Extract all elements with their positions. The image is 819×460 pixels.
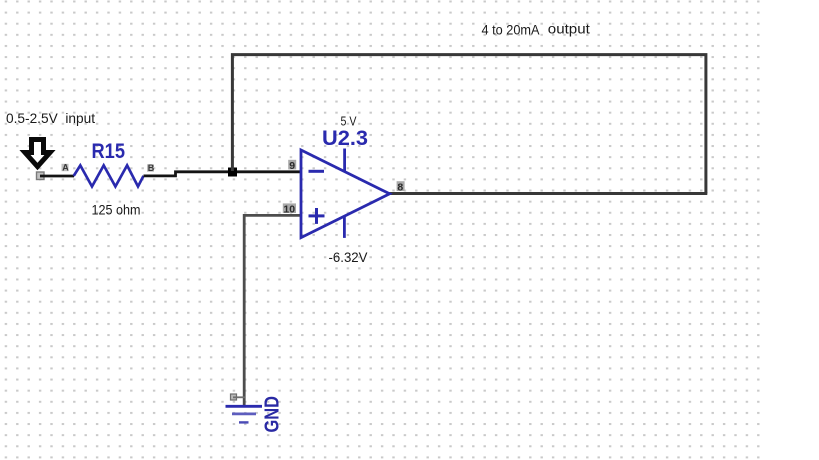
resistor R15 [74,165,144,186]
op-amp negative supply stub [343,216,346,238]
wire: op-amp output to right [390,192,708,195]
svg-text:8: 8 [397,182,403,194]
op-amp minus input symbol [309,170,325,173]
ground pin square [231,394,237,400]
op-amp plus input symbol [309,214,325,217]
svg-text:0.5-2.5V input: 0.5-2.5V input [6,110,95,126]
svg-text:125 ohm: 125 ohm [92,203,141,218]
svg-text:4 to 20mAoutput: 4 to 20mAoutput [482,22,591,38]
svg-text:R15: R15 [92,140,126,163]
pin label 9 [288,160,296,172]
svg-text:A: A [62,163,69,173]
svg-text:9: 9 [289,160,295,172]
op-amp U2.3 triangle [301,150,390,238]
pin label B [147,163,155,173]
pin label A [62,163,70,173]
ground pin stub wire [233,396,245,398]
junction dot [228,168,237,177]
svg-text:10: 10 [283,204,295,216]
wire: ground to op-amp pin 10 [244,215,301,406]
svg-text:B: B [148,163,155,173]
ground symbol bar 1 [226,405,263,408]
ground symbol bar 3 [239,421,249,423]
input arrow [25,140,50,167]
svg-text:-6.32V: -6.32V [329,250,368,265]
pin label 8 [397,181,405,193]
ground symbol bar 2 [232,412,256,415]
svg-text:U2.3: U2.3 [322,127,368,150]
svg-text:GND: GND [262,396,284,433]
input terminal pin [37,172,45,180]
wire: feedback loop (up, right, down) [232,55,706,194]
pin label 10 [283,203,296,215]
op-amp positive supply stub [343,149,346,172]
wire: resistor B to op-amp pin 9 (with jog) [144,172,302,176]
wire: input pin to resistor A [40,175,74,178]
